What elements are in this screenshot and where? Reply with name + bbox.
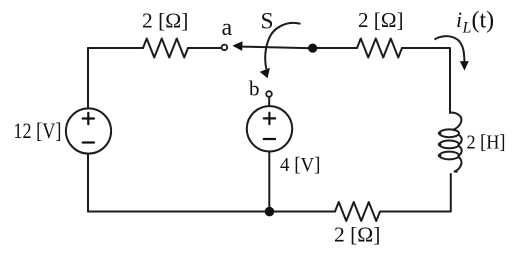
svg-text:12 [V]: 12 [V] — [13, 118, 61, 143]
svg-text:2 [H]: 2 [H] — [467, 132, 506, 154]
svg-text:b: b — [249, 77, 260, 101]
svg-text:2 [Ω]: 2 [Ω] — [334, 223, 380, 247]
svg-text:L: L — [462, 20, 472, 37]
svg-text:2 [Ω]: 2 [Ω] — [142, 9, 188, 33]
svg-text:i: i — [456, 7, 462, 32]
svg-text:S: S — [261, 9, 274, 35]
svg-text:(t): (t) — [472, 7, 495, 33]
svg-text:4 [V]: 4 [V] — [280, 154, 321, 176]
svg-text:a: a — [222, 15, 233, 41]
svg-text:2 [Ω]: 2 [Ω] — [358, 8, 404, 32]
